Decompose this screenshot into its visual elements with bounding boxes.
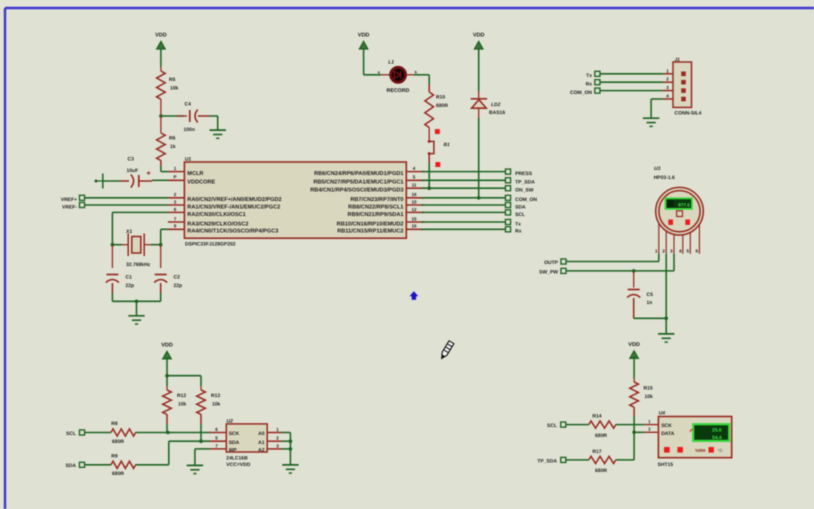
value label C1 22p bbox=[126, 275, 135, 290]
junction DATA node bbox=[632, 431, 636, 435]
svg-text:RB8/CN22/RP8/SCL1: RB8/CN22/RP8/SCL1 bbox=[348, 203, 403, 210]
wire VREF- to pin 3 bbox=[85, 204, 168, 206]
terminal Tx (J1) bbox=[595, 71, 600, 76]
svg-text:10k: 10k bbox=[170, 86, 179, 92]
pencil cursor bbox=[439, 341, 454, 360]
polarity mark C3 + bbox=[147, 171, 151, 175]
svg-text:16: 16 bbox=[411, 192, 417, 197]
svg-text:R12: R12 bbox=[177, 393, 186, 399]
terminal COM_ON (J1) bbox=[595, 88, 600, 93]
terminal Rx (J1) bbox=[595, 80, 600, 85]
svg-text:R13: R13 bbox=[211, 393, 220, 399]
svg-text:RB11/CN15/RP11/EMUC2: RB11/CN15/RP11/EMUC2 bbox=[337, 228, 403, 235]
wire C1 to rail bbox=[111, 283, 113, 301]
svg-text:COM_ON: COM_ON bbox=[515, 197, 537, 203]
svg-text:U1: U1 bbox=[185, 157, 192, 163]
svg-text:DATA: DATA bbox=[661, 431, 675, 437]
pin 5 SDA stub (U2 left) bbox=[210, 436, 240, 446]
resistor R15 10k bbox=[630, 382, 639, 407]
svg-text:680R: 680R bbox=[112, 439, 124, 445]
value label R9 680R bbox=[111, 453, 124, 477]
resistor R6 1k (lower divider) bbox=[157, 133, 166, 161]
wire rail to ground bbox=[136, 301, 138, 316]
pin stub (U1 right row 1) bbox=[406, 166, 424, 172]
wire to X1 left bbox=[112, 244, 122, 246]
svg-text:R6: R6 bbox=[169, 136, 176, 142]
svg-text:SHT15: SHT15 bbox=[658, 462, 674, 468]
svg-text:22p: 22p bbox=[126, 283, 135, 289]
terminal TP_SDA bbox=[505, 178, 510, 183]
ground (C4) bbox=[210, 130, 226, 138]
svg-text:RA3/CN29/CLKO/OSC2: RA3/CN29/CLKO/OSC2 bbox=[187, 220, 248, 227]
junction rail A1 bbox=[289, 439, 293, 443]
pin P stub (U1 left) bbox=[168, 175, 185, 181]
svg-text:SCL: SCL bbox=[66, 431, 76, 437]
ground (U2 address rail) bbox=[282, 465, 298, 473]
wire VREF+ to pin 2 bbox=[85, 197, 168, 199]
value label C5 1n bbox=[647, 292, 654, 306]
wire Rx to J1 pin2 bbox=[600, 81, 663, 83]
svg-text:SW_PW: SW_PW bbox=[539, 270, 558, 276]
wire LED to R10 bbox=[414, 75, 429, 92]
resistor R13 10k (SDA pull-up) bbox=[197, 390, 206, 414]
svg-text:J1: J1 bbox=[675, 57, 681, 63]
svg-text:B1: B1 bbox=[444, 142, 450, 148]
pin 6 stub (U1 left) bbox=[168, 207, 185, 213]
svg-text:VDDCORE: VDDCORE bbox=[187, 180, 215, 186]
resistor R10 680R bbox=[425, 92, 434, 128]
svg-text:RB10/CN16/RP10/EMUD2: RB10/CN16/RP10/EMUD2 bbox=[337, 220, 404, 227]
terminal Rx bbox=[505, 227, 510, 232]
pin 1 stub (U1 left) bbox=[168, 166, 185, 172]
svg-text:SCL: SCL bbox=[515, 212, 525, 218]
value label R13 10k bbox=[211, 393, 221, 408]
wire net ON_SW bbox=[422, 187, 506, 189]
svg-text:SDA: SDA bbox=[65, 463, 76, 469]
terminal SW_PW bbox=[561, 268, 566, 273]
wire Tx to J1 pin1 bbox=[600, 73, 663, 75]
wire TP_SDA to R17 bbox=[566, 459, 589, 461]
junction diode/COM_ON bbox=[477, 196, 481, 200]
pin 2 DATA stub (U4) bbox=[644, 427, 674, 437]
wire net PRESS bbox=[422, 171, 506, 173]
svg-text:VDD: VDD bbox=[473, 33, 485, 39]
svg-text:SDA: SDA bbox=[515, 204, 526, 210]
wire crystal ground rail bbox=[112, 300, 160, 302]
pin 2 stub (U1 left) bbox=[168, 192, 185, 198]
value label R14 680R bbox=[592, 414, 607, 439]
pin 4 of J1 bbox=[663, 94, 686, 102]
push button B1 bbox=[428, 140, 434, 155]
wire VDD to R5 bbox=[160, 48, 162, 67]
wire node to C5 bbox=[633, 271, 635, 288]
svg-text:680R: 680R bbox=[436, 103, 448, 109]
pin 3 of J1 bbox=[663, 85, 686, 93]
svg-text:100n: 100n bbox=[184, 127, 195, 133]
value label R15 10k bbox=[644, 386, 654, 401]
svg-text:A1: A1 bbox=[258, 440, 265, 446]
wire C5 to ground rail bbox=[634, 298, 667, 318]
svg-text:VREF+: VREF+ bbox=[61, 197, 77, 203]
pin 9 stub (U1 left) bbox=[168, 224, 185, 230]
wire node to R6 bbox=[160, 116, 162, 133]
resistor R14 680R bbox=[589, 421, 616, 428]
svg-text:25.6: 25.6 bbox=[712, 428, 722, 434]
eeprom U2 24LC16B body bbox=[226, 424, 267, 452]
svg-text:Rx: Rx bbox=[586, 82, 593, 88]
svg-text:VDD: VDD bbox=[161, 343, 173, 349]
pin 2 of U3 bbox=[662, 231, 666, 253]
power symbol VDD (EEPROM pull-ups) bbox=[161, 343, 173, 359]
wire split down R13 bbox=[200, 376, 202, 386]
svg-text:DSPIC33FJ128GP202: DSPIC33FJ128GP202 bbox=[185, 242, 236, 248]
wire VDD to split bbox=[166, 357, 168, 376]
svg-text:RB7/CN23/RP7/INT0: RB7/CN23/RP7/INT0 bbox=[350, 196, 403, 203]
svg-text:R9: R9 bbox=[111, 453, 118, 459]
svg-text:RB6/CN24/RP6/PA0/EMUD1/PGD1: RB6/CN24/RP6/PA0/EMUD1/PGD1 bbox=[314, 170, 403, 177]
junction pull-up split bbox=[165, 374, 169, 378]
value label R5 10k bbox=[169, 77, 179, 92]
wire diode to COM_ON net bbox=[478, 118, 480, 198]
pin stub (U1 right row 8) bbox=[406, 224, 424, 230]
wire X1 right to riser bbox=[151, 244, 161, 246]
svg-text:11: 11 bbox=[412, 183, 417, 188]
svg-text:10: 10 bbox=[411, 199, 417, 204]
svg-text:VCC=VDD: VCC=VDD bbox=[226, 462, 250, 468]
wire C2 to rail bbox=[160, 283, 162, 301]
wire crystal right riser to SOSCO pin bbox=[161, 229, 168, 244]
svg-text:MCLR: MCLR bbox=[187, 171, 203, 177]
pin 1 of J1 bbox=[663, 68, 686, 76]
terminal Tx bbox=[505, 219, 510, 224]
junction R12/SCL bbox=[166, 431, 170, 435]
svg-text:TP_SDA: TP_SDA bbox=[537, 459, 557, 465]
svg-text:R14: R14 bbox=[592, 414, 601, 420]
svg-text:RA0/CN2/VREF+/AN0/EMUD2/PGD2: RA0/CN2/VREF+/AN0/EMUD2/PGD2 bbox=[187, 196, 281, 203]
svg-text:RA2/CN30/CLKI/OSC1: RA2/CN30/CLKI/OSC1 bbox=[187, 211, 245, 218]
wire R15 to DATA node bbox=[633, 407, 635, 432]
wire SCL to R8 bbox=[85, 432, 111, 434]
svg-text:SDA: SDA bbox=[229, 440, 240, 446]
svg-text:VREF-: VREF- bbox=[62, 204, 77, 210]
pin 3 of U3 bbox=[670, 235, 674, 254]
pin stub (U1 right row 4) bbox=[406, 192, 424, 198]
crystal X1 32.768kHz bbox=[122, 234, 151, 257]
pin name labels U1 right bbox=[310, 170, 403, 235]
pin 1 SCK stub (U4) bbox=[644, 419, 672, 429]
wire R6 to MCLR pin bbox=[161, 161, 168, 172]
wire WP to ground bbox=[195, 449, 210, 466]
svg-text:U3: U3 bbox=[654, 166, 661, 172]
svg-text:L1: L1 bbox=[388, 59, 394, 65]
wire R17 to DATA riser bbox=[616, 432, 634, 460]
pin 3 A2 stub (U2 right) bbox=[258, 443, 281, 453]
svg-text:10k: 10k bbox=[178, 402, 187, 408]
value label R12 10k bbox=[177, 393, 187, 408]
wire R10 to button bbox=[428, 128, 430, 141]
wire J1 pin4 to ground bbox=[651, 99, 663, 118]
pin 1 A0 stub (U2 right) bbox=[258, 427, 281, 437]
terminal VREF- bbox=[79, 202, 84, 207]
junction rail A2 bbox=[289, 447, 293, 451]
junction crystal left bbox=[111, 243, 115, 247]
svg-text:C1: C1 bbox=[126, 275, 133, 281]
wire net SDA bbox=[422, 204, 506, 206]
indicator square U4 #2 bbox=[677, 447, 683, 453]
svg-text:A2: A2 bbox=[258, 448, 265, 454]
pin 4 of U3 bbox=[679, 235, 683, 254]
svg-text:R5: R5 bbox=[169, 77, 176, 83]
power symbol VDD (LED) bbox=[358, 33, 370, 49]
junction node divider/C4 bbox=[159, 114, 163, 118]
terminal SCL bbox=[505, 210, 510, 215]
wire U3 pin2 to ground bbox=[665, 254, 667, 334]
svg-text:RB5/CN27/RP5/DA1/EMUC1/PGC1: RB5/CN27/RP5/DA1/EMUC1/PGC1 bbox=[313, 179, 403, 186]
svg-text:RA4/CN0/T1CK/SOSCO/RP4/PGC3: RA4/CN0/T1CK/SOSCO/RP4/PGC3 bbox=[187, 228, 278, 235]
svg-text:P: P bbox=[173, 175, 176, 180]
svg-text:WP: WP bbox=[229, 448, 238, 454]
value label R6 1k bbox=[169, 136, 176, 151]
svg-text:1k: 1k bbox=[170, 144, 176, 150]
svg-text:%RH: %RH bbox=[695, 448, 705, 453]
svg-text:10k: 10k bbox=[212, 402, 221, 408]
wire R14 to U4 SCK bbox=[616, 424, 645, 426]
indicator square (button state bottom) bbox=[435, 162, 440, 167]
ground (J1) bbox=[643, 118, 659, 126]
wire node to C2 bbox=[160, 245, 162, 268]
junction rail/ground bbox=[135, 300, 139, 304]
part label 24LC16B VCC=VDD bbox=[226, 456, 250, 469]
svg-text:VDD: VDD bbox=[155, 33, 167, 39]
wire VDD to R15 bbox=[633, 357, 635, 379]
svg-text:CONN-SIL4: CONN-SIL4 bbox=[675, 111, 702, 117]
svg-text:COM_ON: COM_ON bbox=[570, 90, 592, 96]
indicator square U4 #1 bbox=[664, 447, 670, 453]
value label R8 680R bbox=[111, 421, 124, 445]
svg-text:16: 16 bbox=[411, 224, 417, 229]
connector J1 CONN-SIL4 body bbox=[673, 62, 692, 107]
diode LD2 BAS16 bbox=[471, 91, 487, 118]
wire net COM_ON bbox=[422, 197, 506, 199]
indicator square U4 #3 bbox=[709, 447, 714, 453]
led L1 RECORD bbox=[381, 67, 414, 82]
wire split down R12 bbox=[166, 376, 168, 386]
wire net Rx bbox=[422, 228, 506, 230]
svg-text:SCK: SCK bbox=[229, 431, 240, 437]
wire net TP_SDA bbox=[422, 179, 506, 181]
svg-text:LD2: LD2 bbox=[491, 102, 501, 108]
svg-text:RB4/CN1/RP4/SOSCI/EMUD3/PGD3: RB4/CN1/RP4/SOSCI/EMUD3/PGD3 bbox=[310, 187, 403, 194]
wire crystal left riser bbox=[111, 212, 113, 244]
svg-text:RECORD: RECORD bbox=[387, 88, 410, 94]
junction C5/ground wire bbox=[664, 317, 668, 321]
capacitor C1 22p bbox=[106, 275, 119, 283]
pin 2 of J1 bbox=[663, 77, 686, 85]
wire R5 to node bbox=[160, 99, 162, 116]
svg-text:Tx: Tx bbox=[515, 221, 521, 227]
ground (U2 WP) bbox=[187, 465, 203, 473]
display of U4 (temp/humidity readout) bbox=[693, 424, 729, 441]
svg-text:R8: R8 bbox=[111, 421, 118, 427]
svg-text:°C: °C bbox=[718, 448, 724, 453]
resistor R17 680R bbox=[589, 456, 616, 463]
svg-text:HP03-1.6: HP03-1.6 bbox=[654, 175, 675, 181]
capacitor C4 100n bbox=[190, 110, 198, 123]
svg-text:977.6: 977.6 bbox=[678, 203, 690, 208]
terminal SCL (SHT15) bbox=[561, 422, 566, 427]
junction R13/SDA bbox=[199, 439, 203, 443]
wire OSC1 from crystal bbox=[112, 211, 168, 213]
resistor R9 680R bbox=[111, 461, 136, 468]
svg-text:R17: R17 bbox=[592, 449, 601, 455]
node stub (C3 left electrode) bbox=[95, 174, 103, 189]
power symbol VDD (MCLR divider) bbox=[155, 33, 167, 49]
wire R13 to SDA row bbox=[200, 414, 202, 441]
power symbol VDD (SHT15 pull-up) bbox=[628, 342, 640, 358]
svg-text:R10: R10 bbox=[436, 94, 445, 100]
svg-text:BAS16: BAS16 bbox=[489, 110, 505, 116]
sensor U3 HP03 body bbox=[656, 187, 704, 235]
wire R9 to U2 SDA bbox=[136, 441, 210, 465]
wire C4 to ground bbox=[198, 116, 218, 130]
svg-text:RA1/CN3/VREF-/AN1/EMUC2/PGC2: RA1/CN3/VREF-/AN1/EMUC2/PGC2 bbox=[187, 203, 280, 210]
wire node to C4 bbox=[161, 115, 184, 117]
terminal TP_SDA bbox=[561, 457, 566, 462]
pin stub (U1 right row 2) bbox=[406, 175, 424, 181]
wire SCL to R14 bbox=[566, 424, 589, 426]
centre pad of U3 bbox=[677, 211, 683, 217]
indicator square U3 right bbox=[685, 220, 690, 225]
pin 7 stub (U1 left) bbox=[168, 216, 185, 222]
value label R17 680R bbox=[592, 449, 607, 474]
junction button/ON_SW bbox=[427, 186, 431, 190]
pin 7 WP stub (U2 left) bbox=[210, 443, 238, 453]
wire net SCL bbox=[422, 211, 506, 213]
svg-text:ON_SW: ON_SW bbox=[515, 188, 534, 194]
indicator square (button state top) bbox=[435, 129, 440, 134]
pin 2 A1 stub (U2 right) bbox=[258, 436, 281, 446]
svg-text:TP_SDA: TP_SDA bbox=[515, 180, 535, 186]
terminal SCL (U2) bbox=[79, 430, 84, 435]
terminal ON_SW bbox=[505, 186, 510, 191]
svg-text:54.4: 54.4 bbox=[712, 435, 722, 441]
svg-text:C5: C5 bbox=[647, 292, 654, 298]
pin 6 of U3 bbox=[696, 225, 700, 254]
wire R8 to U2 SCK bbox=[136, 432, 210, 434]
svg-text:C3: C3 bbox=[128, 157, 135, 163]
value label R10 680R bbox=[436, 94, 448, 109]
svg-text:24LC16B: 24LC16B bbox=[226, 456, 248, 462]
svg-text:U2: U2 bbox=[227, 418, 234, 424]
resistor R12 10k (SCL pull-up) bbox=[163, 390, 172, 414]
wire node to C1 bbox=[111, 245, 113, 268]
terminal PRESS bbox=[505, 169, 510, 174]
sensor U4 SHT15 body bbox=[658, 417, 731, 458]
wire U3 pin1 to OUTP bbox=[566, 254, 659, 262]
svg-text:10k: 10k bbox=[645, 394, 654, 400]
svg-text:1n: 1n bbox=[647, 300, 653, 306]
wire DATA node to U4 bbox=[634, 431, 644, 433]
mcu U1 dsPIC33FJ12GP202 body bbox=[184, 162, 406, 238]
capacitor C2 22p bbox=[154, 275, 167, 283]
value label C3 10uF bbox=[127, 157, 139, 175]
svg-text:OUTP: OUTP bbox=[544, 260, 559, 266]
pin name labels U1 left bbox=[187, 171, 281, 235]
svg-text:Tx: Tx bbox=[586, 73, 592, 79]
terminal OUTP bbox=[561, 259, 566, 264]
ground (U3) bbox=[658, 334, 674, 342]
wire C3 to VDDCORE pin bbox=[139, 179, 168, 182]
junction SW_PW/C5 bbox=[632, 269, 636, 273]
wire split to R13 bbox=[167, 375, 201, 377]
capacitor C3 10uF (VDDCORE) bbox=[131, 175, 139, 188]
svg-text:C4: C4 bbox=[185, 102, 192, 108]
svg-text:U4: U4 bbox=[659, 411, 666, 417]
resistor R8 680R bbox=[111, 429, 136, 436]
svg-text:680R: 680R bbox=[595, 468, 607, 474]
pin 1 of U3 bbox=[655, 223, 659, 253]
svg-text:SCL: SCL bbox=[547, 423, 557, 429]
svg-text:A0: A0 bbox=[258, 431, 265, 437]
wire net Tx bbox=[422, 221, 506, 223]
svg-text:VDD: VDD bbox=[358, 33, 370, 39]
junction crystal right bbox=[159, 243, 163, 247]
indicator square U3 left bbox=[668, 220, 673, 225]
wire SDA to R9 bbox=[85, 464, 111, 466]
resistor R5 10k (upper divider) bbox=[157, 71, 166, 99]
svg-text:32.768kHz: 32.768kHz bbox=[126, 262, 151, 268]
svg-text:R15: R15 bbox=[644, 386, 653, 392]
wire C3 left bbox=[103, 180, 129, 182]
terminal COM_ON bbox=[505, 195, 510, 200]
terminal SDA bbox=[505, 202, 510, 207]
pin stub (U1 right row 3) bbox=[406, 183, 424, 189]
svg-text:SCK: SCK bbox=[661, 423, 672, 429]
svg-text:680R: 680R bbox=[112, 471, 124, 477]
svg-text:Rx: Rx bbox=[515, 229, 522, 235]
pin stub (U1 right row 6) bbox=[406, 207, 424, 213]
svg-text:12: 12 bbox=[411, 207, 417, 212]
pin 3 stub (U1 left) bbox=[168, 199, 185, 205]
wire VDD to diode bbox=[478, 48, 480, 91]
svg-text:RB9/CN21/RP9/SDA1: RB9/CN21/RP9/SDA1 bbox=[348, 211, 404, 218]
tick mark (U4 display) bbox=[690, 429, 693, 432]
wire U3 pin3 to SW_PW bbox=[566, 254, 674, 271]
svg-text:PRESS: PRESS bbox=[515, 171, 533, 177]
power symbol VDD (diode) bbox=[473, 33, 485, 49]
pin 5 of U3 bbox=[686, 233, 690, 254]
svg-text:22p: 22p bbox=[174, 283, 183, 289]
svg-text:680R: 680R bbox=[595, 433, 607, 439]
ground (crystal) bbox=[128, 316, 144, 324]
terminal SDA (U2) bbox=[79, 462, 84, 467]
svg-text:15: 15 bbox=[411, 216, 417, 221]
pin 6 SCK stub (U2 left) bbox=[210, 427, 240, 437]
capacitor C5 1n bbox=[627, 290, 640, 298]
pin stub (U1 right row 5) bbox=[406, 199, 424, 205]
value label C4 100n bbox=[184, 102, 195, 134]
wire U2 address pins to rail bbox=[282, 433, 291, 465]
svg-text:VDD: VDD bbox=[628, 342, 640, 348]
wire VDD to LED bbox=[364, 48, 381, 75]
display of U3 (pressure readout) bbox=[666, 198, 692, 209]
pin stub (U1 right row 7) bbox=[406, 216, 424, 222]
wire R12 to SCL row bbox=[166, 414, 168, 432]
value label C2 22p bbox=[174, 275, 183, 290]
terminal VREF+ bbox=[79, 195, 84, 200]
svg-text:C2: C2 bbox=[174, 275, 181, 281]
cursor origin marker (blue) bbox=[410, 291, 419, 300]
